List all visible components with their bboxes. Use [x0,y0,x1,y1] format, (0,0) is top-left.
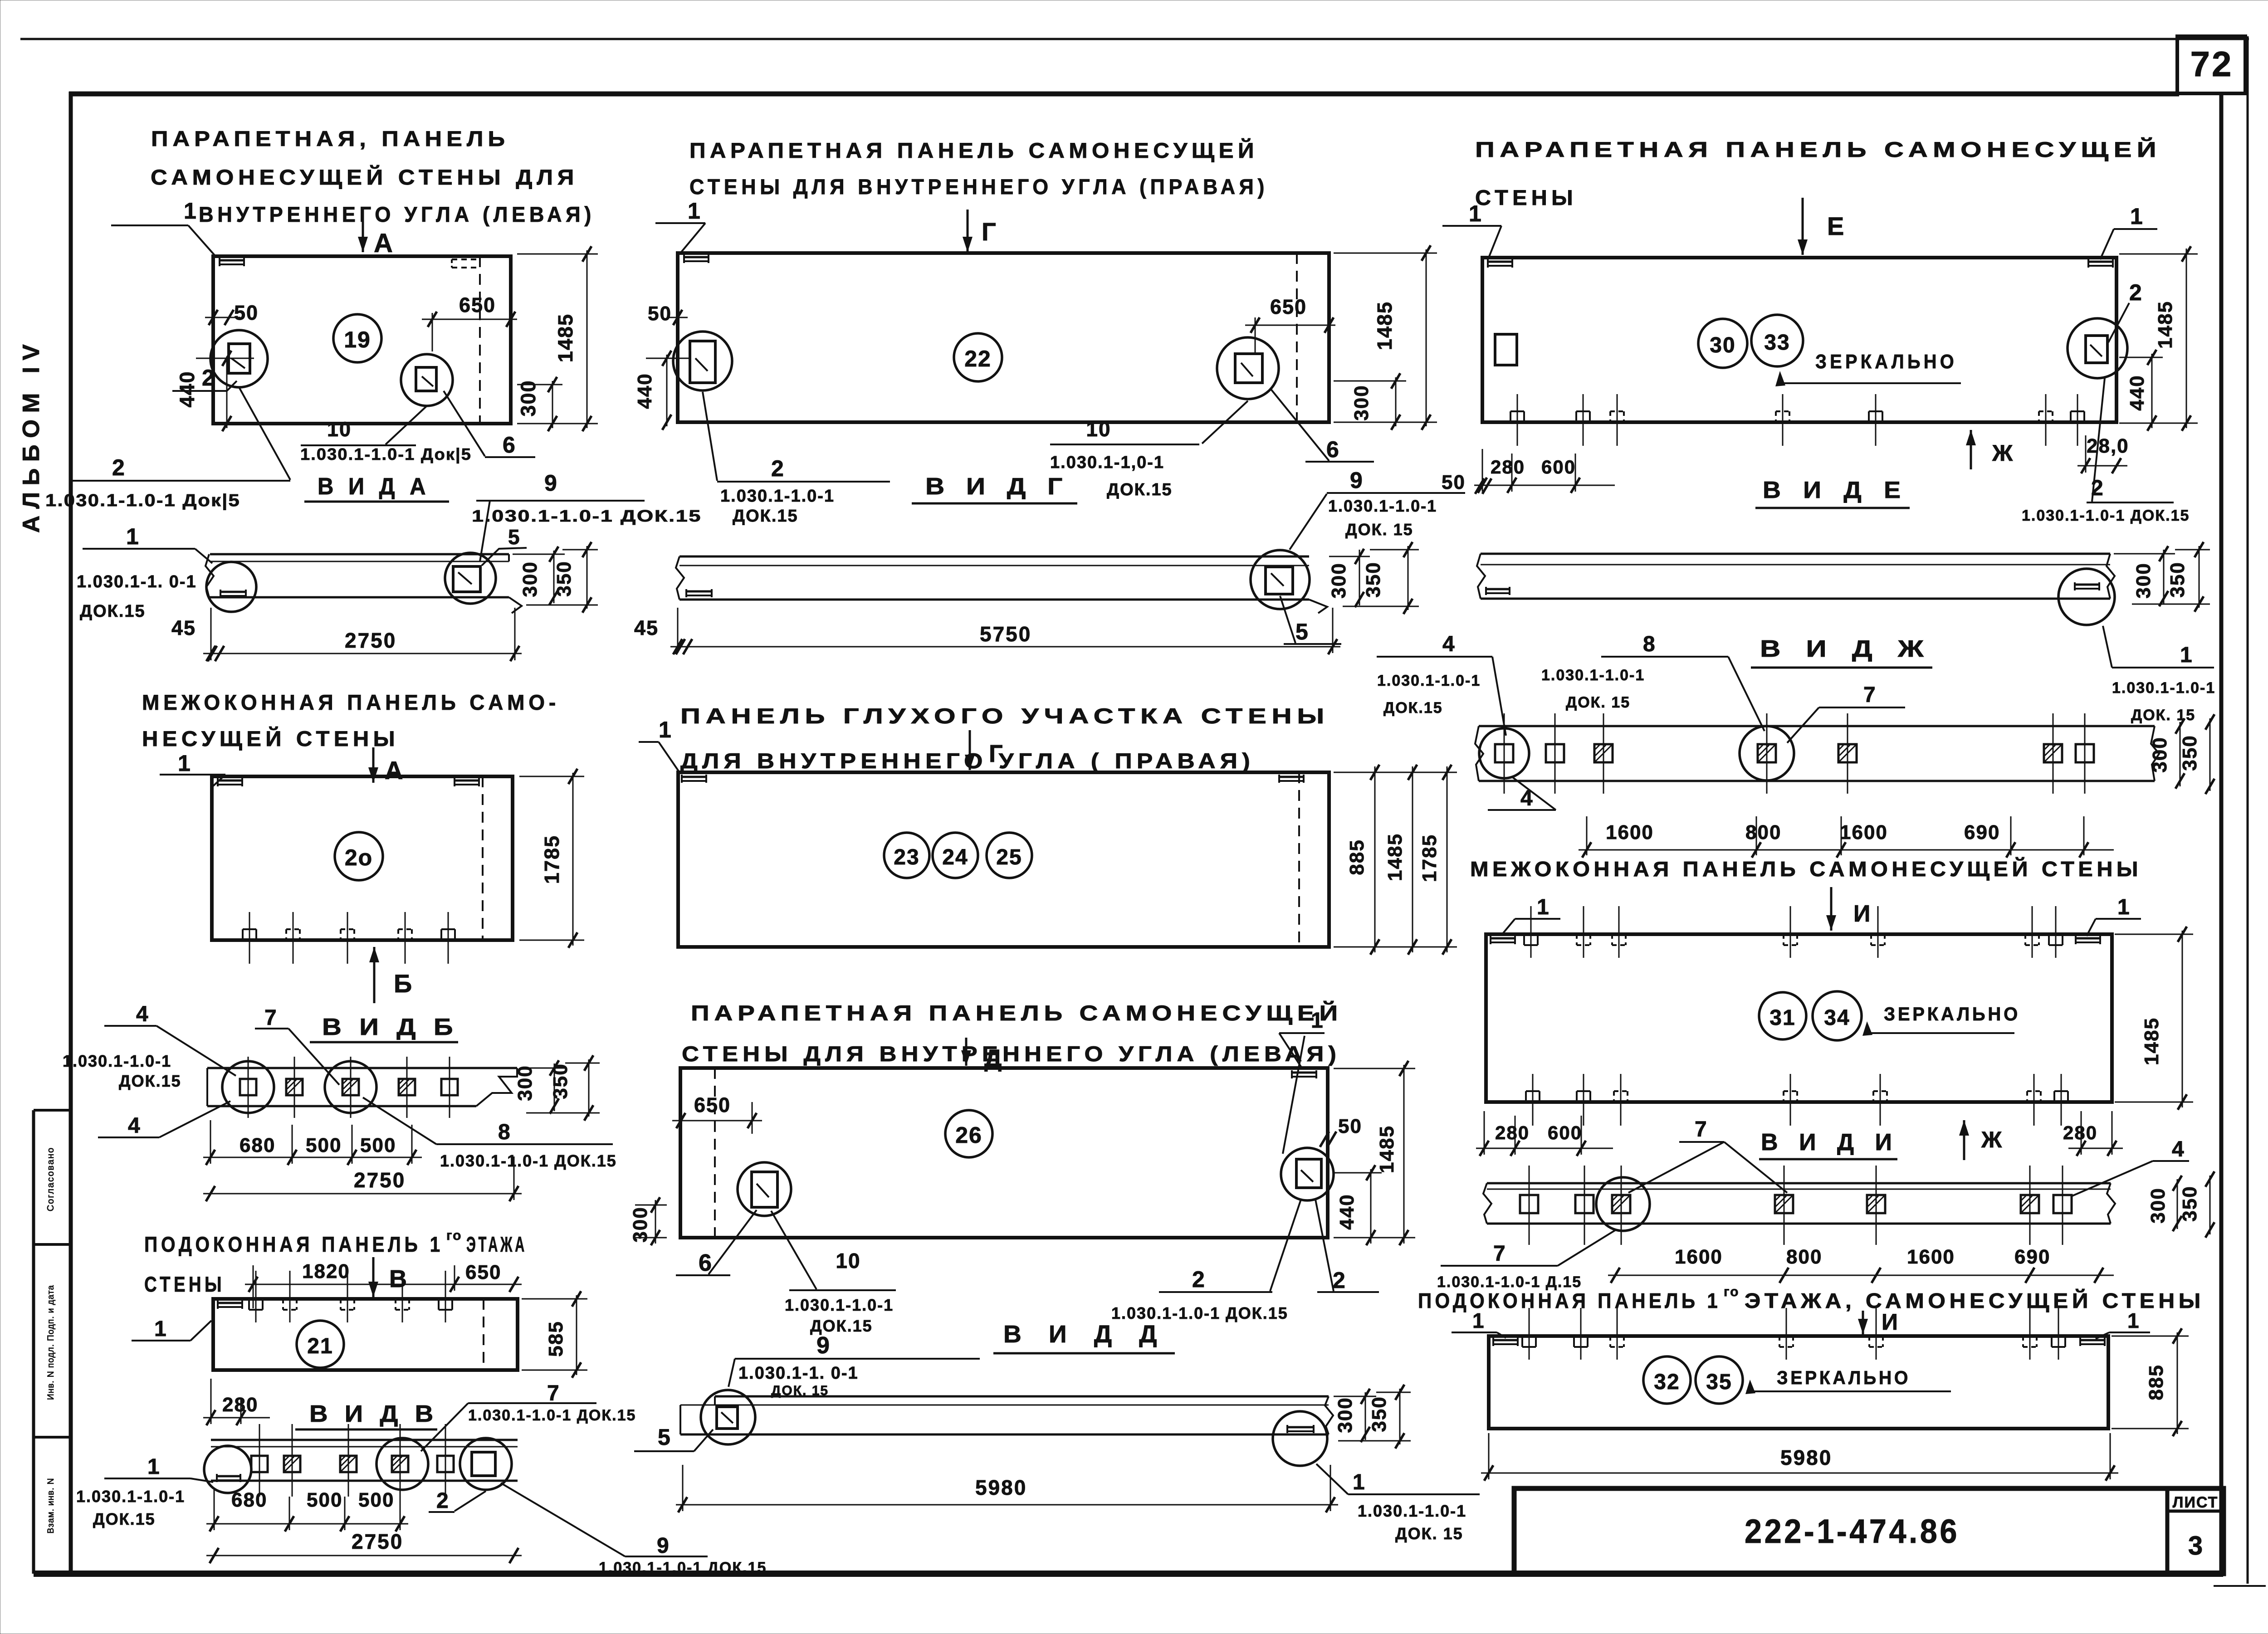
svg-text:Ж: Ж [1981,1127,2002,1152]
svg-text:7: 7 [547,1381,559,1405]
svg-text:В И Д Б: В И Д Б [322,1014,458,1040]
strip D right detail circle [1273,1411,1327,1466]
svg-text:350: 350 [2166,561,2189,597]
view arrow G above panel 23-25 [969,730,971,770]
panel 23-25 lifting loop top-right [1279,776,1304,778]
svg-text:1: 1 [2180,643,2192,667]
svg-text:800: 800 [1745,821,1781,844]
strip G left break [676,556,684,600]
panel 23-25 lifting loop top-left [682,776,706,778]
panel 22 outline [678,253,1329,422]
svg-text:1.030.1-1.0-1: 1.030.1-1.0-1 [1358,1502,1466,1520]
svg-text:1.030.1-1.0-1: 1.030.1-1.0-1 [2112,679,2215,697]
svg-text:1: 1 [154,1317,166,1341]
panel 22 right detail circle [1217,337,1279,399]
strip V squares [251,1456,268,1472]
stamp box divider 2 [34,1243,71,1246]
svg-text:1.030.1-1.0-1 ДОК.15: 1.030.1-1.0-1 ДОК.15 [440,1151,617,1170]
svg-text:ПАРАПЕТНАЯ ПАНЕЛЬ САМОНЕСУЩЕ: ПАРАПЕТНАЯ ПАНЕЛЬ САМОНЕСУЩЕЙ [691,1001,1343,1025]
svg-text:45: 45 [634,616,659,639]
svg-text:5: 5 [508,525,520,549]
svg-text:10: 10 [836,1249,860,1273]
svg-text:1: 1 [1537,895,1549,919]
svg-text:7: 7 [264,1006,277,1030]
section strip view G [679,556,1309,558]
panel 19 top-right dashed corner mark [452,259,477,260]
svg-text:1: 1 [1353,1470,1365,1494]
strip Zh2 left detail circle [1479,728,1529,778]
svg-text:24: 24 [942,845,968,869]
panel 32 lifting loop top-right [2080,1339,2105,1341]
svg-text:680: 680 [240,1134,275,1156]
svg-text:30: 30 [1710,333,1735,357]
strip A right detail circle [445,553,496,604]
svg-text:600: 600 [1541,456,1576,478]
svg-text:28,0: 28,0 [2087,435,2129,457]
svg-text:1.030.1-1.0-1 ДОК.15: 1.030.1-1.0-1 ДОК.15 [1111,1304,1288,1322]
panel 26 right detail circle [1281,1148,1334,1200]
svg-text:ДОК.15: ДОК.15 [93,1510,156,1528]
svg-text:500: 500 [360,1134,396,1156]
svg-text:ПАРАПЕТНАЯ ПАНЕЛЬ САМОНЕСУЩЕ: ПАРАПЕТНАЯ ПАНЕЛЬ САМОНЕСУЩЕЙ [1475,137,2161,161]
svg-text:350: 350 [2179,1185,2201,1221]
svg-text:1.030.1-1,0-1: 1.030.1-1,0-1 [1050,453,1164,472]
strip D left detail circle [701,1390,755,1444]
svg-text:350: 350 [549,1063,572,1099]
strip I right break [2107,1183,2115,1224]
sheet bottom-right edge mark [2214,1585,2266,1587]
panel 23-25 outline [678,772,1329,947]
svg-text:1: 1 [126,524,139,549]
panel 19 left detail circle with opening [210,330,268,387]
panel 30 left edge square detail [1495,334,1517,365]
title block [1514,1488,2224,1574]
svg-text:300: 300 [1334,1397,1356,1433]
svg-text:А: А [374,229,393,258]
svg-text:В И Д А: В И Д А [318,473,430,500]
svg-text:2: 2 [771,456,784,481]
svg-text:300: 300 [1328,562,1350,598]
svg-text:ДОК. 15: ДОК. 15 [1395,1524,1463,1543]
panel 31 bottom anchors [1525,1091,1527,1102]
panel 22 left detail circle [673,332,732,390]
mark circle 23 [884,833,929,878]
svg-text:ДОК.15: ДОК.15 [1107,480,1173,499]
panel 32 top anchors [1521,1336,1523,1347]
svg-text:СТЕНЫ: СТЕНЫ [1475,185,1577,210]
svg-text:ПАРАПЕТНАЯ, ПАНЕЛЬ: ПАРАПЕТНАЯ, ПАНЕЛЬ [151,127,509,151]
svg-text:1: 1 [1311,1009,1323,1033]
svg-text:1485: 1485 [554,313,577,362]
view arrow D above panel 26 [965,1038,968,1066]
svg-text:2: 2 [1333,1268,1345,1293]
svg-text:ПОДОКОННАЯ ПАНЕЛЬ 1: ПОДОКОННАЯ ПАНЕЛЬ 1 [1418,1289,1721,1312]
svg-text:1.030.1-1.0-1: 1.030.1-1.0-1 [63,1052,171,1070]
svg-text:МЕЖОКОННАЯ ПАНЕЛЬ САМО-: МЕЖОКОННАЯ ПАНЕЛЬ САМО- [142,690,560,714]
svg-text:В И Д Е: В И Д Е [1763,477,1908,503]
svg-text:1485: 1485 [2141,1017,2163,1065]
svg-text:885: 885 [2145,1364,2167,1400]
svg-text:ДОК.15: ДОК.15 [733,507,798,526]
strip Zh1 right break [2107,554,2115,599]
svg-text:1: 1 [147,1455,160,1479]
svg-text:33: 33 [1764,331,1790,355]
svg-text:8: 8 [498,1120,510,1144]
svg-text:1.030.1-1.0-1 Док|5: 1.030.1-1.0-1 Док|5 [300,445,472,464]
panel 19 right detail circle with opening [401,354,453,406]
section strip 1 view Zh [1481,553,2110,555]
section strip view D (5980 panel) [715,1395,1329,1398]
strip I squares [1520,1195,1538,1213]
svg-text:1.030.1-1.0-1 ДОК.15: 1.030.1-1.0-1 ДОК.15 [2022,507,2190,524]
svg-text:6: 6 [503,432,515,458]
svg-text:4: 4 [136,1002,148,1026]
panel 26 outline [680,1068,1328,1238]
svg-text:4: 4 [2172,1137,2184,1161]
stamp box divider 1 [34,1109,71,1112]
svg-text:2: 2 [112,455,125,480]
svg-text:ДОК.15: ДОК.15 [80,602,146,621]
panel 30 lifting loop top-left [1488,261,1512,263]
panel 19 dashed joint line [479,256,481,424]
svg-text:1: 1 [659,717,671,742]
drawing frame left border [69,92,73,1576]
svg-text:1.030.1-1.0-1: 1.030.1-1.0-1 [720,487,835,506]
sheet outer right edge line [2247,36,2249,1584]
svg-text:ПАНЕЛЬ ГЛУХОГО УЧАСТКА С: ПАНЕЛЬ ГЛУХОГО УЧАСТКА СТЕНЫ [680,704,1330,728]
view arrow Zh under panel 30 [1970,430,1972,469]
svg-text:32: 32 [1654,1370,1680,1394]
svg-text:1.030.1-1.0-1 ДОК.15: 1.030.1-1.0-1 ДОК.15 [468,1407,636,1424]
svg-text:ЭТАЖА: ЭТАЖА [466,1232,527,1256]
strip V left detail circle [204,1446,251,1493]
svg-text:45: 45 [171,616,196,639]
panel 20 lifting loop top-right [455,780,479,782]
view arrow A panel 20 [372,747,375,783]
view arrow A above panel 19 [362,221,364,252]
svg-text:31: 31 [1769,1006,1795,1030]
svg-text:ДОК. 15: ДОК. 15 [2131,707,2195,724]
svg-text:1.030.1-1.0-1: 1.030.1-1.0-1 [785,1296,894,1314]
panel 21 dashed joint line [483,1299,484,1370]
panel 30 bottom anchors [1510,411,1511,422]
strip B squares [240,1079,256,1095]
strip Zh2 squares [1495,744,1513,762]
strip G right detail circle [1251,550,1310,609]
svg-text:Е: Е [1827,212,1844,240]
svg-text:650: 650 [465,1261,501,1283]
svg-text:Б: Б [394,969,412,998]
svg-text:1.030.1-1.0-1 Док|5: 1.030.1-1.0-1 Док|5 [45,491,240,510]
svg-text:И: И [1853,901,1870,927]
svg-text:1: 1 [688,198,700,224]
panel 26 detail circle [738,1162,791,1216]
svg-text:В И Д Г: В И Д Г [925,473,1070,500]
svg-text:5: 5 [1295,619,1308,644]
svg-text:1485: 1485 [1376,1125,1398,1173]
strip I left break [1483,1183,1491,1224]
svg-text:350: 350 [1362,561,1384,597]
svg-text:НЕСУЩЕЙ СТЕНЫ: НЕСУЩЕЙ СТЕНЫ [142,727,399,751]
svg-text:350: 350 [2179,735,2201,771]
svg-text:222-1-474.86: 222-1-474.86 [1745,1512,1960,1550]
svg-text:585: 585 [545,1321,567,1356]
svg-text:300: 300 [2132,562,2155,598]
svg-text:25: 25 [996,845,1022,869]
svg-text:4: 4 [1442,632,1455,656]
svg-text:3: 3 [2188,1531,2203,1561]
svg-text:34: 34 [1824,1006,1850,1030]
svg-text:Инв. N подл. Подп. и дата: Инв. N подл. Подп. и дата [46,1285,56,1400]
svg-text:7: 7 [1493,1242,1505,1266]
svg-text:1485: 1485 [1373,301,1396,350]
svg-text:1: 1 [178,751,191,776]
svg-text:ЗЕРКАЛЬНО: ЗЕРКАЛЬНО [1777,1367,1911,1388]
svg-text:650: 650 [1270,295,1307,318]
svg-text:7: 7 [1695,1117,1707,1141]
panel 20 outline [212,776,513,940]
svg-text:690: 690 [2014,1246,2050,1268]
svg-text:280: 280 [1491,456,1525,478]
drawing frame bottom border [34,1571,2223,1577]
strip G left lifting loop [686,590,712,593]
svg-text:23: 23 [894,845,919,869]
svg-text:1600: 1600 [1840,821,1888,844]
svg-text:го: го [446,1228,462,1243]
panel 22 lifting loop top-left [684,256,709,259]
panel 21 lifting loop top-left [218,1302,242,1304]
svg-text:ВНУТРЕННЕГО УГЛА (ЛЕВАЯ): ВНУТРЕННЕГО УГЛА (ЛЕВАЯ) [199,202,595,226]
svg-text:300: 300 [1350,385,1373,420]
svg-text:5980: 5980 [975,1476,1027,1499]
svg-text:1.030.1-1.0-1: 1.030.1-1.0-1 [1541,667,1645,684]
panel 30/33 outline [1482,258,2116,422]
svg-text:2750: 2750 [345,629,396,652]
strip Zh2 left break [1475,726,1483,781]
strip Zh2 middle detail circle [1740,726,1794,780]
view arrow I above panel 32 [1862,1311,1864,1334]
panel 22 mark circle 22 [954,333,1002,381]
svg-text:го: го [1724,1284,1739,1299]
section strip 2 view Zh [1479,725,2155,727]
panel 31 lifting loop top-right [2076,937,2100,940]
svg-text:10: 10 [1086,417,1111,441]
svg-text:1.030.1-1.0-1: 1.030.1-1.0-1 [76,1487,185,1506]
strip B detail circle 1 [222,1061,274,1113]
left stamp column outer border [32,1110,35,1574]
svg-text:ПАРАПЕТНАЯ ПАНЕЛЬ САМОНЕСУЩЕ: ПАРАПЕТНАЯ ПАНЕЛЬ САМОНЕСУЩЕЙ [689,138,1258,162]
title block LIST box [2165,1488,2170,1574]
svg-text:1785: 1785 [540,835,563,884]
svg-text:СТЕНЫ ДЛЯ ВНУТРЕННЕГО УГЛА: СТЕНЫ ДЛЯ ВНУТРЕННЕГО УГЛА (ПРАВАЯ) [689,175,1268,199]
svg-text:800: 800 [1786,1246,1822,1268]
svg-text:50: 50 [1442,471,1466,493]
panel 32/35 outline [1489,1336,2108,1429]
svg-text:Г: Г [982,217,996,246]
svg-text:1.030.1-1.0-1 Д.15: 1.030.1-1.0-1 Д.15 [1437,1273,1582,1291]
svg-text:1600: 1600 [1675,1246,1723,1268]
view arrow B below panel 20 [373,947,376,1003]
strip Zh2 right break [2151,726,2159,781]
strip D right break [1325,1396,1333,1434]
svg-text:1: 1 [2130,204,2143,229]
view arrow I above panel 31 [1830,887,1833,931]
svg-text:1: 1 [2117,895,2130,919]
mark circle 25 [987,833,1032,878]
panel 32 lifting loop top-left [1493,1339,1518,1341]
svg-text:650: 650 [694,1093,731,1117]
svg-text:21: 21 [307,1334,333,1358]
view arrow G above panel 22 [967,210,969,252]
svg-text:8: 8 [1643,632,1655,656]
mark circle 35 [1696,1356,1743,1404]
mark circle 33 [1751,315,1803,366]
panel 20 lifting loop top-left [218,780,242,782]
svg-text:500: 500 [307,1489,342,1511]
svg-text:1: 1 [184,198,196,224]
svg-text:В И Д Д: В И Д Д [1003,1321,1167,1348]
svg-text:50: 50 [1338,1115,1362,1137]
svg-text:ЗЕРКАЛЬНО: ЗЕРКАЛЬНО [1884,1003,2020,1024]
svg-text:10: 10 [327,418,352,441]
strip Zh1 left break [1477,554,1485,599]
mark circle 31 [1759,992,1806,1039]
svg-text:В: В [389,1265,407,1293]
svg-text:440: 440 [176,371,199,407]
svg-text:2: 2 [2129,280,2142,305]
svg-text:1485: 1485 [1384,833,1406,881]
svg-text:680: 680 [231,1489,267,1511]
svg-text:1.030.1-1.0-1: 1.030.1-1.0-1 [1328,497,1437,515]
svg-text:1485: 1485 [2154,301,2176,349]
svg-text:7: 7 [1863,683,1876,707]
svg-text:1: 1 [1472,1309,1484,1332]
panel 31 top anchors [1523,934,1525,945]
panel 21 mark circle 21 [297,1321,344,1368]
svg-text:72: 72 [2190,44,2234,84]
strip A left break [205,554,214,597]
svg-text:22: 22 [964,346,992,371]
svg-text:9: 9 [816,1332,830,1359]
panel 31 lifting loop top-left [1491,937,1515,940]
mark circle 32 [1643,1356,1691,1404]
panel 31/34 outline [1486,934,2112,1102]
svg-text:Согласовано: Согласовано [46,1147,56,1211]
panel 19 lifting loop top-left [220,259,244,262]
panel 26 lifting loop top-right [1292,1072,1316,1074]
svg-text:Взам. инв. N: Взам. инв. N [46,1478,56,1533]
svg-text:280: 280 [1495,1122,1530,1143]
panel 30 lifting loop top-right [2088,261,2113,263]
svg-text:1820: 1820 [302,1260,350,1283]
page number box [2177,36,2245,93]
svg-text:1: 1 [2127,1309,2139,1332]
panel 20 dashed joint line [482,776,484,940]
svg-text:ДОК. 15: ДОК. 15 [1345,520,1413,539]
section strip view B [207,1067,517,1069]
svg-text:2: 2 [1192,1267,1205,1292]
svg-text:В И Д В: В И Д В [309,1401,438,1427]
svg-text:440: 440 [634,373,656,409]
svg-text:440: 440 [1336,1194,1358,1229]
svg-text:690: 690 [1964,821,2000,844]
svg-text:СТЕНЫ: СТЕНЫ [144,1272,225,1296]
svg-text:И: И [1882,1309,1898,1335]
svg-text:5: 5 [658,1424,670,1450]
svg-text:500: 500 [358,1489,394,1511]
svg-text:300: 300 [2149,737,2171,772]
svg-text:50: 50 [648,302,672,325]
drawing frame right border [2219,92,2224,1576]
view arrow V above panel 21 [372,1257,375,1297]
svg-text:26: 26 [955,1122,982,1148]
panel 20 bottom anchors [242,929,244,940]
section strip view V [211,1439,518,1441]
svg-text:ДОК.15: ДОК.15 [1383,699,1443,717]
panel 19 outline [213,256,511,424]
view arrow E above panel 30 [1802,198,1804,255]
svg-text:1.030.1-1. 0-1: 1.030.1-1. 0-1 [738,1364,859,1383]
svg-text:500: 500 [306,1134,342,1156]
panel 21 top anchors [248,1299,250,1310]
mark circle 30 [1698,319,1747,368]
panel 22 dashed joint line [1296,253,1298,422]
svg-text:600: 600 [1548,1122,1582,1143]
svg-text:Г: Г [989,740,1003,767]
svg-text:2750: 2750 [352,1530,403,1553]
mark circle 24 [933,833,978,878]
svg-text:50: 50 [234,301,259,324]
svg-text:440: 440 [2126,375,2148,410]
stamp box divider 3 [34,1436,71,1439]
svg-text:2: 2 [436,1489,449,1513]
strip Zh1 left lifting loop [1486,588,1510,590]
svg-text:2750: 2750 [354,1168,406,1192]
panel 21 outline [213,1299,518,1370]
svg-text:5750: 5750 [980,622,1031,646]
svg-text:А: А [385,756,403,785]
svg-text:9: 9 [657,1534,669,1558]
section strip view A [210,553,509,556]
strip B detail circle 2 [325,1061,376,1113]
strip Zh1 right lifting loop [2075,584,2099,586]
svg-text:300: 300 [519,561,541,597]
svg-text:1.030.1-1.0-1 ДОК.15: 1.030.1-1.0-1 ДОК.15 [599,1559,767,1576]
svg-text:ПОДОКОННАЯ ПАНЕЛЬ 1: ПОДОКОННАЯ ПАНЕЛЬ 1 [144,1232,444,1256]
svg-text:1.030.1-1. 0-1: 1.030.1-1. 0-1 [77,572,197,591]
svg-text:35: 35 [1706,1370,1732,1394]
strip I detail circle [1596,1177,1650,1231]
svg-text:4: 4 [128,1114,140,1138]
mark circle 34 [1813,991,1862,1040]
svg-text:19: 19 [344,327,371,352]
svg-text:2: 2 [202,365,215,390]
svg-text:1.030.1-1.0-1: 1.030.1-1.0-1 [1377,672,1481,689]
panel 26 mark circle 26 [945,1110,992,1157]
svg-text:350: 350 [1368,1396,1390,1432]
svg-text:1.030.1-1.0-1 ДОК.15: 1.030.1-1.0-1 ДОК.15 [472,507,702,525]
svg-text:885: 885 [1346,839,1368,875]
panel 20 mark circle 20 [335,832,383,880]
section strip view I [1487,1182,2111,1185]
panel 23-25 dashed joint line [1298,772,1300,947]
panel 19 mark circle 19 [333,314,381,362]
svg-text:В И Д Ж: В И Д Ж [1760,636,1932,662]
svg-text:Ж: Ж [1992,440,2013,466]
svg-text:5980: 5980 [1780,1446,1832,1469]
svg-text:350: 350 [553,561,575,596]
svg-text:1785: 1785 [1418,834,1441,882]
